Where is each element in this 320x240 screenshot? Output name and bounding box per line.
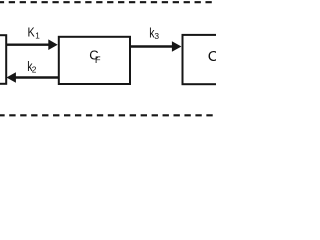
svg-text:C: C <box>208 48 216 65</box>
svg-text:3: 3 <box>154 31 159 41</box>
svg-text:1: 1 <box>35 32 40 41</box>
svg-text:2: 2 <box>32 65 37 75</box>
svg-text:K: K <box>28 25 35 40</box>
svg-text:F: F <box>95 54 101 65</box>
